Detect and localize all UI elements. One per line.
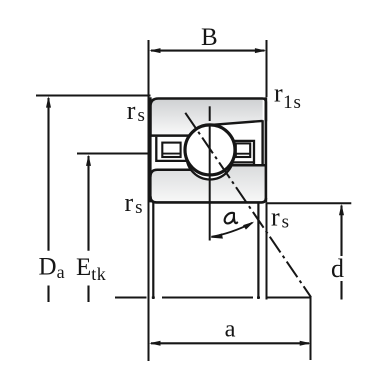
cage left rivet rect bbox=[162, 143, 180, 157]
cage right rivet rect bbox=[236, 143, 250, 157]
cage right bottom line bbox=[230, 161, 255, 163]
outer ring raceway diagonal (right) bbox=[211, 121, 263, 125]
alpha arc left arrowhead bbox=[211, 233, 223, 238]
svg-text:rs: rs bbox=[125, 188, 143, 218]
Etk horizontal extension bbox=[77, 153, 151, 155]
cage right bracket bbox=[231, 141, 254, 165]
Etk lower segment bbox=[87, 286, 89, 303]
Da dimension line bbox=[47, 98, 49, 251]
svg-text:a: a bbox=[225, 316, 236, 343]
Da lower segment bbox=[47, 286, 49, 303]
right extension line top bbox=[266, 40, 268, 97]
left extension line bbox=[148, 40, 150, 361]
a right extension line bbox=[310, 297, 312, 360]
svg-text:d: d bbox=[331, 254, 344, 283]
bore left edge bbox=[152, 202, 154, 299]
svg-text:B: B bbox=[201, 24, 218, 51]
outer ring bottom-left edge bbox=[149, 134, 189, 137]
a right arrowhead bbox=[300, 341, 311, 346]
d dimension line bbox=[340, 206, 342, 257]
B right arrowhead bbox=[255, 48, 266, 53]
raceway groove arc bbox=[187, 133, 234, 180]
svg-text:Da: Da bbox=[39, 254, 65, 282]
a dimension line bbox=[151, 342, 309, 344]
alpha arc right arrowhead bbox=[243, 222, 254, 230]
inner ring right shoulder bbox=[227, 164, 266, 167]
d arrowhead bbox=[339, 204, 344, 215]
B left arrowhead bbox=[149, 48, 160, 53]
d lower segment bbox=[340, 281, 342, 300]
outer ring (top) body fill bbox=[150, 99, 262, 136]
right extension line bottom bbox=[266, 202, 268, 299]
bearing right face bbox=[265, 97, 268, 202]
d horizontal extension bbox=[267, 202, 351, 204]
Etk dimension line bbox=[87, 156, 89, 251]
ball bbox=[185, 125, 235, 175]
ball vertical center line bbox=[209, 106, 211, 121]
bore right edge bbox=[257, 202, 259, 299]
Etk arrowhead bbox=[86, 155, 91, 166]
inner ring left shoulder bbox=[150, 170, 190, 177]
svg-text:rs: rs bbox=[127, 96, 145, 126]
cage left bracket bbox=[156, 137, 187, 161]
outer ring outline bbox=[150, 99, 266, 136]
cage left divider bbox=[162, 153, 180, 155]
cage right divider bbox=[236, 153, 250, 155]
contact angle dash-dot diagonal bbox=[185, 113, 311, 297]
pocket right wall bbox=[261, 120, 263, 165]
B dimension line bbox=[151, 50, 265, 52]
svg-text:r1s: r1s bbox=[274, 78, 302, 113]
a left arrowhead bbox=[149, 341, 160, 346]
svg-text:Etk: Etk bbox=[76, 254, 106, 284]
Da horizontal extension bbox=[36, 95, 151, 97]
axis dash-dot line bbox=[115, 297, 311, 299]
bearing left face bbox=[149, 97, 151, 202]
inner ring (bottom) body fill bbox=[150, 165, 266, 202]
svg-text:rs: rs bbox=[271, 203, 289, 233]
inner ring bottom edge bbox=[150, 196, 266, 202]
alpha arc bbox=[211, 223, 252, 237]
label alpha bbox=[225, 213, 238, 224]
Da arrowhead bbox=[46, 96, 51, 107]
